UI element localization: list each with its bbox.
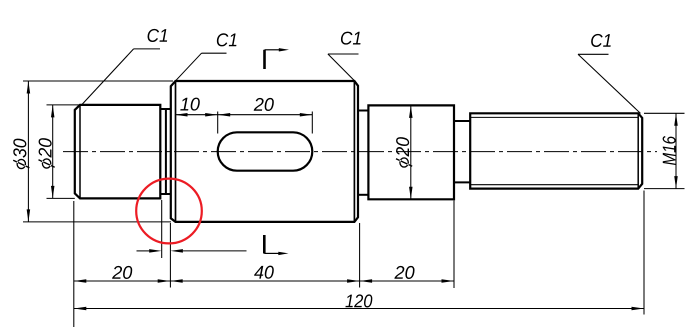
- dimension 40 (collar length): [170, 266, 359, 283]
- dimension middle Ø20 (section 3): [396, 105, 413, 199]
- section cut marker top: [265, 48, 290, 69]
- shaft section 1 (left Ø20 journal) outline: [75, 105, 161, 198]
- dimension Ø30: [13, 81, 30, 222]
- keyway slot: [218, 132, 313, 170]
- dimension 20 (keyway length): [218, 98, 313, 117]
- shaft section 3 (Ø20 journal) outline: [368, 105, 454, 199]
- dimension 10 (keyway offset): [175, 98, 218, 117]
- dimension 20 (first shoulder length): [74, 266, 170, 283]
- centerline: [63, 151, 657, 153]
- thread minor diameter lines: [470, 117, 638, 184]
- chamfer label C1 on section 2 left: [175, 33, 236, 81]
- red highlight circle around groove: [136, 179, 202, 244]
- section cut marker bottom: [264, 235, 288, 255]
- extension lines for bottom length dimensions: [74, 191, 644, 328]
- section 4 chamfer ring line: [637, 113, 639, 188]
- shaft section 2 (Ø30 collar) outline: [171, 81, 358, 222]
- chamfer label C1 on section 1: [82, 29, 168, 105]
- section 2 right chamfer ring line: [353, 81, 355, 222]
- groove 2 (undercut between Ø30 collar and section 3): [358, 111, 368, 195]
- chamfer label C1 on threaded end: [578, 34, 641, 114]
- groove width dimension (arrows outside): [137, 249, 247, 253]
- chamfer label C1 on section 2 right: [328, 32, 361, 81]
- groove 3 (thread undercut): [454, 121, 470, 182]
- extension lines for keyway dimensions: [218, 112, 313, 134]
- section 2 left chamfer ring line: [175, 81, 177, 222]
- dimension M16: [663, 113, 678, 188]
- extension lines for M16: [644, 113, 685, 188]
- dimension left Ø20: [38, 105, 55, 198]
- shaft section 4 (M16 threaded end) outline: [470, 113, 642, 188]
- groove 1 (undercut between section 1 and Ø30 collar): [160, 109, 171, 194]
- dimension 20 (section 3 length): [360, 266, 454, 283]
- extension lines for Ø30: [23, 81, 173, 222]
- extension lines for groove width dimension: [162, 200, 171, 288]
- extension lines for left Ø20: [47, 105, 81, 198]
- section 1 left chamfer ring line: [79, 105, 81, 198]
- dimension 120 (overall length): [74, 294, 644, 310]
